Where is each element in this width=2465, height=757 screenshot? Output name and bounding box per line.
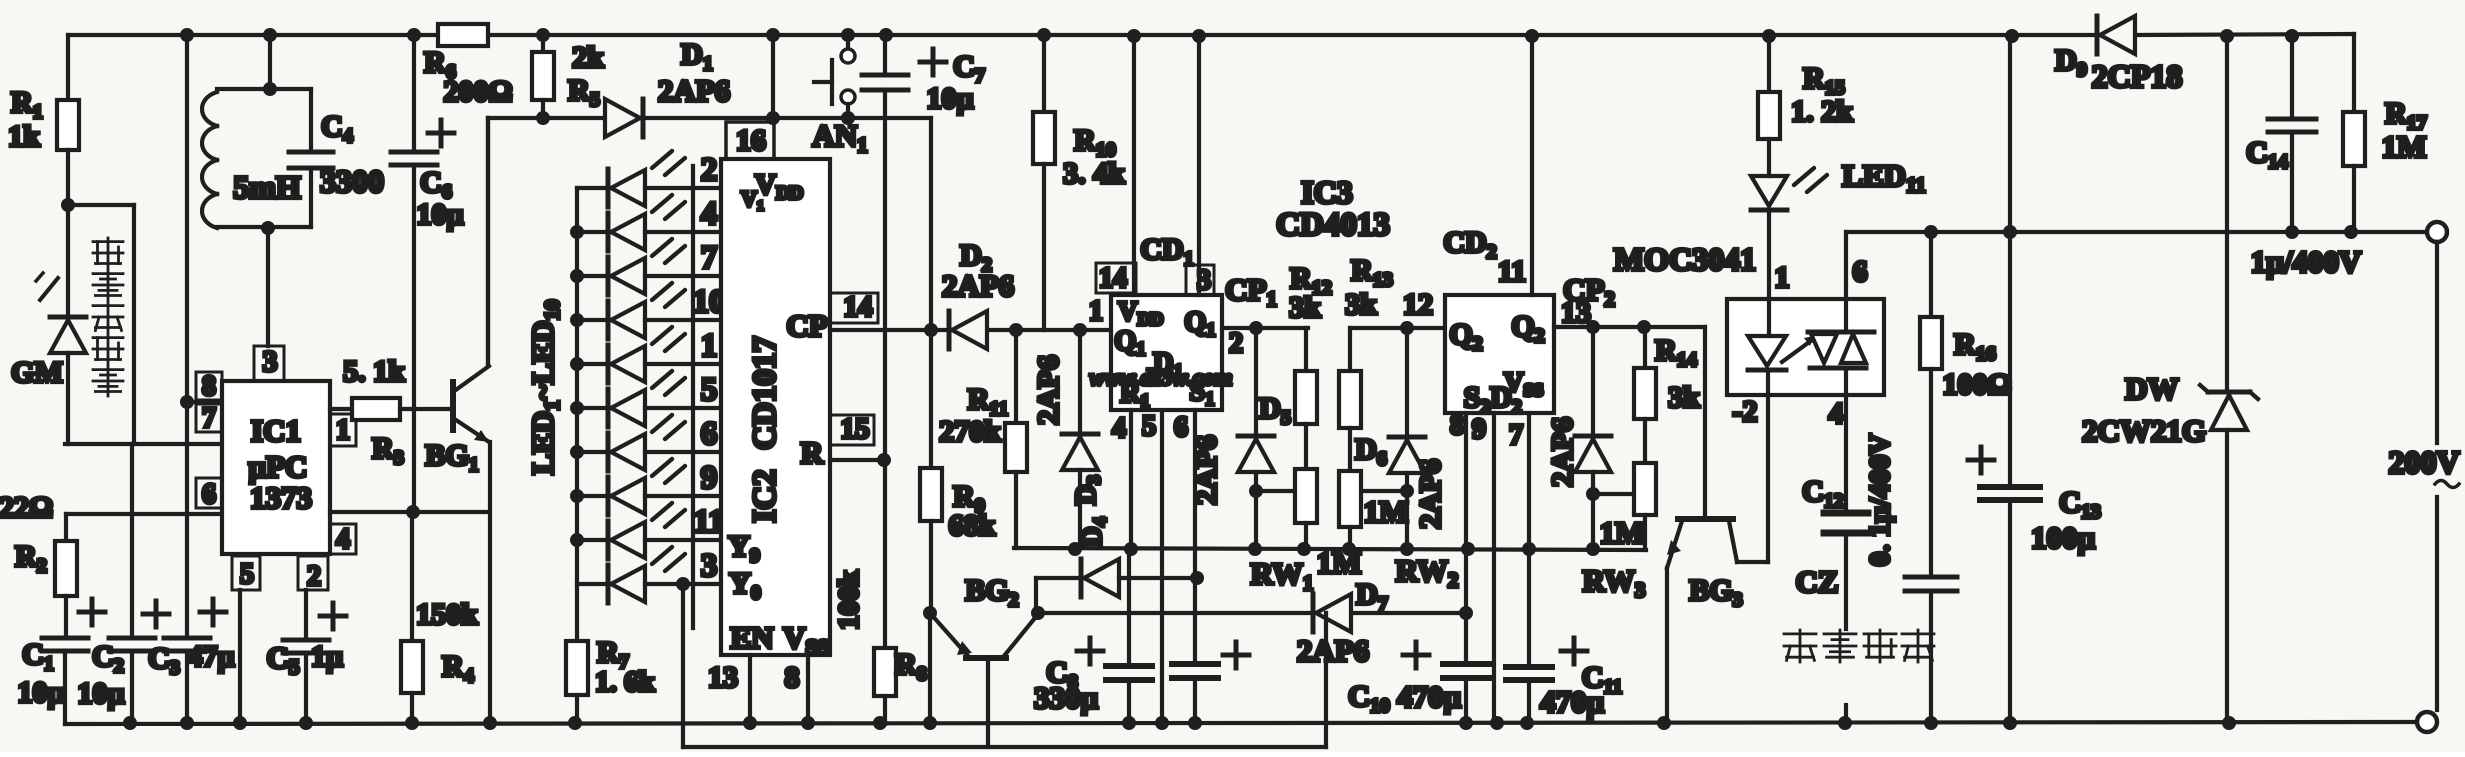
node top bus junction x1134 xyxy=(1127,29,1141,43)
svg-text:1: 1 xyxy=(1089,296,1103,327)
wire LED cathode rail xyxy=(575,188,579,641)
svg-text:2AP6: 2AP6 xyxy=(1546,417,1579,487)
LED D LED8 xyxy=(577,494,608,498)
wire CD2 pin7 down xyxy=(1527,413,1531,549)
node AC row x2351 xyxy=(2344,225,2358,239)
wire C13 to ground xyxy=(2008,500,2012,724)
wire C2 to ground xyxy=(130,651,134,724)
pin tab IC1-6 xyxy=(196,478,222,508)
svg-text:5: 5 xyxy=(1142,411,1156,442)
svg-text:1M: 1M xyxy=(2382,129,2427,164)
wire tank top xyxy=(217,87,311,91)
svg-text:1M: 1M xyxy=(1317,545,1362,580)
svg-text:2AP6: 2AP6 xyxy=(1190,435,1223,505)
svg-text:470μ: 470μ xyxy=(1540,684,1605,719)
node R14 top xyxy=(1637,320,1651,334)
node R11 top xyxy=(1009,323,1023,337)
plus C13 xyxy=(1968,458,1994,463)
wire D6 top lead xyxy=(1405,328,1409,437)
svg-text:2: 2 xyxy=(701,152,718,188)
wire R1 to GM node xyxy=(66,150,70,205)
diode D3 xyxy=(1062,432,1098,437)
svg-text:2AP6: 2AP6 xyxy=(1032,355,1065,425)
LED4 slashes xyxy=(652,283,672,300)
svg-text:14: 14 xyxy=(844,291,873,323)
svg-text:1: 1 xyxy=(1775,261,1790,294)
node LED rail row 8 xyxy=(570,489,584,503)
svg-text:CP: CP xyxy=(786,308,827,343)
capacitor C1 xyxy=(42,636,88,641)
wire RW1 bottom lead xyxy=(1304,523,1308,549)
node ground bus junction x575 xyxy=(568,716,582,730)
node BG2 emitter xyxy=(1031,606,1045,620)
node ground bus junction x930 xyxy=(923,716,937,730)
capacitor C5 xyxy=(283,638,329,643)
node ground bus junction x1931 xyxy=(1924,716,1938,730)
LED1 slashes xyxy=(652,151,672,168)
MOC internal LED xyxy=(1748,336,1786,366)
wire CD1 pin4 down xyxy=(1129,410,1133,549)
LED6 slashes xyxy=(652,371,672,388)
wire D8 bottom lead xyxy=(1591,472,1595,551)
wire R9 bottom lead xyxy=(929,521,933,613)
wire R8 to ground xyxy=(883,696,887,724)
capacitor C3 xyxy=(164,636,210,641)
wire bottom ground bus xyxy=(65,722,2417,724)
diode D6 xyxy=(1389,435,1425,440)
flip-flop U CD2 box xyxy=(1445,295,1554,413)
svg-text:200Ω: 200Ω xyxy=(443,75,512,108)
svg-text:10μ: 10μ xyxy=(77,677,124,710)
svg-text:R: R xyxy=(801,435,824,470)
svg-text:6: 6 xyxy=(1853,255,1868,288)
text hongwai char 4 xyxy=(93,334,123,364)
wire tank to IC1 pin3 xyxy=(266,228,270,346)
LED D LED3 xyxy=(577,274,608,278)
node top bus junction x1769 xyxy=(1762,29,1776,43)
resistor R3 xyxy=(352,398,400,420)
wire DW top lead xyxy=(2225,38,2229,392)
wire BG1 collector up xyxy=(486,118,490,365)
node top bus junction x2227 xyxy=(2220,29,2234,43)
transistor Q BG3 xyxy=(1678,516,1733,522)
resistor R16 xyxy=(1920,317,1942,369)
svg-text:100Ω: 100Ω xyxy=(1942,368,2011,401)
resistor R15 xyxy=(1758,92,1780,139)
text hongwai char 3 xyxy=(93,302,123,332)
svg-text:100μ: 100μ xyxy=(2031,520,2096,555)
pin tab IC1-1 xyxy=(330,414,356,446)
wire R10 top lead xyxy=(1042,35,1046,112)
wire R12 top lead xyxy=(1304,328,1308,371)
diode D9 xyxy=(2095,16,2100,54)
svg-text:-2: -2 xyxy=(1733,395,1758,428)
svg-text:7: 7 xyxy=(701,240,718,276)
resistor R9 xyxy=(920,468,942,521)
wire CD2 pin9 to ground xyxy=(1492,413,1496,724)
svg-text:8: 8 xyxy=(202,371,216,402)
svg-text:1: 1 xyxy=(336,415,350,446)
resistor R12 xyxy=(1295,371,1317,424)
LED2 slashes xyxy=(652,195,672,212)
diode D1 xyxy=(605,99,640,137)
pin tab IC2-16 xyxy=(726,122,774,159)
text feng xyxy=(1864,630,1896,662)
node ground bus junction x240 xyxy=(233,716,247,730)
text hongwai char 2 xyxy=(93,270,123,300)
node ground bus junction x130 xyxy=(123,716,137,730)
capacitor C8 xyxy=(1106,663,1152,669)
capacitor C12 xyxy=(1824,510,1868,517)
svg-text:LED1~LED10: LED1~LED10 xyxy=(525,299,564,474)
wire D6 bottom lead xyxy=(1405,473,1409,549)
svg-text:68k: 68k xyxy=(949,509,996,542)
wire R11 top lead xyxy=(1014,330,1018,423)
svg-text:2AP6: 2AP6 xyxy=(1414,459,1447,529)
svg-text:2AP6: 2AP6 xyxy=(1297,633,1369,668)
node LED rail row 6 xyxy=(570,401,584,415)
svg-text:3: 3 xyxy=(1197,265,1211,296)
node D6 top xyxy=(1400,321,1414,335)
wire R15 to LED11 xyxy=(1767,139,1771,176)
terminal AC bottom circle xyxy=(2417,712,2437,732)
optocoupler U MOC3041 box xyxy=(1727,299,1884,395)
wire RW2 bottom lead xyxy=(1348,527,1352,549)
wire top supply bus left segment xyxy=(68,33,438,37)
wire C3 to ground xyxy=(185,651,189,724)
resistor R10 xyxy=(1033,112,1055,164)
node ground bus junction x1162 xyxy=(1155,716,1169,730)
potentiometer RW1 xyxy=(1295,469,1317,523)
wire GM node to IC1 pin7 row xyxy=(65,442,222,446)
node D5 bottom xyxy=(1248,542,1262,556)
wire R4 top lead xyxy=(410,512,414,641)
LED D LED9 xyxy=(577,538,608,542)
wire R9 top lead xyxy=(929,330,933,468)
diode D5 xyxy=(1238,434,1274,439)
svg-text:1. 6k: 1. 6k xyxy=(595,666,656,698)
wire C4 bottom lead xyxy=(309,168,313,227)
svg-text:9: 9 xyxy=(701,460,718,496)
wire IR receiver right lead xyxy=(132,205,136,444)
node AC row x2292 xyxy=(2285,225,2299,239)
diode D8 xyxy=(1575,434,1611,439)
node pin16/D1 row xyxy=(766,111,780,125)
pin tab IC2-15 xyxy=(830,415,874,445)
svg-text:8: 8 xyxy=(785,661,800,694)
node top bus junction x414 xyxy=(407,28,421,42)
node D8 top xyxy=(1586,320,1600,334)
svg-text:www.dz3w.com: www.dz3w.com xyxy=(1090,365,1233,390)
wire C12 to CZ xyxy=(1844,533,1848,629)
LED D LED1 xyxy=(577,186,608,190)
wire Vdd to CD2 pin11 xyxy=(1530,36,1534,295)
diode D4 xyxy=(1079,559,1084,597)
pin tab IC1-8 xyxy=(196,372,222,400)
wire EN/BG2 base row xyxy=(683,745,1326,749)
svg-text:GM: GM xyxy=(11,356,63,389)
wire R13 to RW2 xyxy=(1348,428,1352,471)
node LED rail row 2 xyxy=(570,225,584,239)
node top bus junction x1044 xyxy=(1037,28,1051,42)
wire AN1 bottom lead xyxy=(846,104,850,118)
wire C8 top lead xyxy=(1127,549,1131,666)
wire D3 top lead xyxy=(1078,330,1082,434)
node D5 top xyxy=(1249,321,1263,335)
plus C3 xyxy=(200,610,226,615)
LED10 slashes xyxy=(652,547,672,564)
node ground bus junction x1845 xyxy=(1838,716,1852,730)
wire R16 top lead xyxy=(1929,232,1933,317)
wire LED11 to MOC pin1 xyxy=(1767,212,1771,334)
wire C13 top lead xyxy=(2008,232,2012,487)
svg-text:4: 4 xyxy=(1829,397,1844,430)
svg-text:4: 4 xyxy=(336,524,350,555)
capacitor C14 xyxy=(2268,117,2316,122)
svg-text:3k: 3k xyxy=(1668,381,1700,414)
svg-text:MOC3041: MOC3041 xyxy=(1614,241,1756,277)
node ground bus junction x1466 xyxy=(1459,716,1473,730)
svg-text:3k: 3k xyxy=(1289,291,1321,324)
resistor R1 xyxy=(57,100,79,150)
plus C1 xyxy=(79,610,105,615)
node R1/GM junction xyxy=(61,198,75,212)
wire R2 top lead xyxy=(64,514,68,541)
wire R13 top lead xyxy=(1348,328,1352,371)
LED3 slashes xyxy=(652,239,672,256)
LED D LED2 xyxy=(577,230,608,234)
node D8 wiper tap xyxy=(1586,487,1600,501)
node top bus junction x270 xyxy=(263,28,277,42)
node ground bus junction x1129 xyxy=(1122,716,1136,730)
wire R14 to RW3 xyxy=(1643,419,1647,463)
pin tab IC1-7 xyxy=(196,404,222,432)
capacitor C11 xyxy=(1506,664,1552,670)
GM incident light slashes xyxy=(40,278,58,300)
wire R1 top lead xyxy=(66,35,70,100)
wire CD1 pin6 down xyxy=(1193,410,1197,578)
plus C11 xyxy=(1561,649,1587,654)
wire R7 to ground xyxy=(575,695,579,724)
node top bus junction x2292 xyxy=(2285,29,2299,43)
potentiometer RW2 xyxy=(1339,471,1361,527)
resistor R11 xyxy=(1005,423,1027,472)
wire CD2 pin13 out xyxy=(1554,325,1705,329)
svg-text:3: 3 xyxy=(263,345,278,378)
svg-text:13: 13 xyxy=(1561,296,1591,329)
node D6 wiper tap xyxy=(1400,484,1414,498)
node R pin junction xyxy=(877,453,891,467)
svg-text:DW: DW xyxy=(2125,371,2178,406)
node D6 bottom xyxy=(1400,542,1414,556)
svg-text:IC2: IC2 xyxy=(747,469,783,522)
flip-flop U CD1 box xyxy=(1111,295,1222,410)
svg-text:470μ: 470μ xyxy=(1397,679,1462,714)
wire IC2 R pin to rail xyxy=(830,458,885,462)
node R5 bottom xyxy=(536,111,550,125)
resistor R5 xyxy=(532,52,554,100)
wire MOC pin6 inside xyxy=(1844,299,1848,332)
svg-text:1. 2k: 1. 2k xyxy=(1791,95,1853,128)
svg-text:1M: 1M xyxy=(1364,494,1409,529)
wire to CD1 pin3 xyxy=(1197,36,1201,295)
LED D LED4 xyxy=(577,318,608,322)
svg-text:5. 1k: 5. 1k xyxy=(343,355,405,388)
wire IC1 pin1 to R3 xyxy=(330,407,352,411)
node LED rail row 7 xyxy=(570,445,584,459)
node top bus junction x1199 xyxy=(1192,29,1206,43)
svg-text:CD4013: CD4013 xyxy=(1276,207,1390,243)
wire C4 top lead xyxy=(309,89,313,152)
node D8 bottom xyxy=(1586,542,1600,556)
text dian xyxy=(1824,630,1856,662)
wire R10 bottom lead xyxy=(1042,164,1046,330)
node pin7 node xyxy=(1522,542,1536,556)
node top bus junction x886 xyxy=(879,28,893,42)
wire IC1 pin5 to ground xyxy=(238,590,242,724)
svg-text:330μ: 330μ xyxy=(1034,680,1099,715)
svg-text:270k: 270k xyxy=(939,415,1001,448)
wire top supply bus middle segment xyxy=(488,33,2095,37)
svg-text:12: 12 xyxy=(1403,288,1433,321)
wire R5 bottom lead xyxy=(541,100,545,118)
svg-text:5mH: 5mH xyxy=(233,169,301,205)
wire DW to ground xyxy=(2225,430,2229,724)
node ground bus junction x2229 xyxy=(2222,716,2236,730)
svg-text:14: 14 xyxy=(1099,263,1127,294)
wire MOC pin6 up xyxy=(1844,232,1848,299)
wire BG2 emitter row right xyxy=(1352,611,1466,615)
wire CP row xyxy=(830,328,1111,332)
node D4/pin6 xyxy=(1190,571,1204,585)
node D3 top xyxy=(1073,323,1087,337)
LED9 slashes xyxy=(652,503,672,520)
node top bus junction x2012 xyxy=(2005,29,2019,43)
node ground bus junction x1664 xyxy=(1657,716,1671,730)
svg-text:13: 13 xyxy=(708,661,738,694)
capacitor C6 xyxy=(391,150,437,155)
wire R7 top xyxy=(575,639,579,643)
capacitor C4 xyxy=(289,150,333,155)
svg-text:2CP18: 2CP18 xyxy=(2092,58,2183,94)
node RW2 bottom xyxy=(1342,542,1356,556)
svg-text:2AP6: 2AP6 xyxy=(942,268,1014,303)
LED D LED6 xyxy=(577,406,608,410)
text jie xyxy=(1784,630,1816,662)
capacitor C9 xyxy=(1172,661,1218,667)
wire C14 top lead xyxy=(2290,36,2294,119)
plus C8 xyxy=(1077,649,1103,654)
pin tab IC1-4 xyxy=(330,524,356,554)
svg-text:3300: 3300 xyxy=(320,163,384,199)
node LED rail row 4 xyxy=(570,313,584,327)
wire R17 top lead xyxy=(2352,34,2356,112)
svg-text:6: 6 xyxy=(701,416,718,452)
plus C7 xyxy=(920,60,946,65)
wire R16 to snubber cap xyxy=(1929,369,1933,577)
svg-text:15: 15 xyxy=(841,413,870,445)
node pin8 rail junction xyxy=(180,395,194,409)
wire snubber cap to ground xyxy=(1929,591,1933,724)
wire C8 to ground xyxy=(1127,680,1131,724)
wire AC right lower xyxy=(2435,497,2439,710)
LED11 slashes xyxy=(1794,168,1814,185)
LED D LED5 xyxy=(577,362,608,366)
node ground bus junction x808 xyxy=(801,716,815,730)
MOC internal triac xyxy=(1808,330,1874,335)
node Y0 output junction xyxy=(676,577,690,591)
svg-text:5: 5 xyxy=(701,372,718,408)
wire C1 to ground xyxy=(63,651,67,724)
wire R3 to BG1 base xyxy=(400,407,452,411)
svg-text:μPC: μPC xyxy=(249,449,308,484)
wire D4 right lead xyxy=(1119,576,1197,580)
node top bus junction x848 xyxy=(841,28,855,42)
LED5 slashes xyxy=(652,327,672,344)
svg-text:1M: 1M xyxy=(1600,515,1645,550)
wire CD2 pin12 xyxy=(1350,326,1445,330)
wire C6 bottom lead xyxy=(412,168,416,512)
svg-text:150k: 150k xyxy=(416,598,478,631)
inductor L 5mH coil xyxy=(202,92,217,126)
svg-text:0. 1μ/400V: 0. 1μ/400V xyxy=(1864,434,1896,566)
wire C6 top lead xyxy=(412,35,416,152)
svg-text:CD1017: CD1017 xyxy=(747,336,783,450)
svg-text:1373: 1373 xyxy=(250,480,312,515)
wire CD1 pin5 to ground xyxy=(1160,410,1164,724)
node AC row x2010 xyxy=(2003,225,2017,239)
wire Y0 to BG2 base row xyxy=(681,584,685,747)
wire IC1 pin4 row xyxy=(330,510,489,514)
capacitor C10 xyxy=(1443,661,1489,667)
svg-text:10μ: 10μ xyxy=(416,198,463,231)
wire pin8 to D7 node xyxy=(1464,549,1468,613)
wire C14 bottom lead xyxy=(2290,132,2294,232)
svg-text:100k: 100k xyxy=(833,569,865,630)
node C8 top xyxy=(1124,542,1138,556)
node ground bus junction x412 xyxy=(405,716,419,730)
wire D4 branch down xyxy=(1034,578,1038,613)
resistor R2 xyxy=(55,541,77,596)
wire tank top lead xyxy=(268,35,272,89)
diode GM infrared receiver xyxy=(50,315,86,320)
node tank top xyxy=(263,82,277,96)
wire D4 left lead xyxy=(1036,576,1081,580)
svg-text:11: 11 xyxy=(1498,255,1526,288)
wire GM diode top lead xyxy=(66,205,70,317)
node ground bus junction x1195 xyxy=(1188,716,1202,730)
LED LED11 xyxy=(1751,176,1787,206)
wire RW3 bottom lead xyxy=(1643,515,1647,550)
wire BG3 collector xyxy=(1737,560,1768,564)
wire BG2 emitter row left xyxy=(1038,611,1313,615)
wire AN1 rail down to CP xyxy=(929,118,933,330)
svg-text:IC1: IC1 xyxy=(251,413,301,448)
resistor R4 xyxy=(401,641,423,693)
svg-text:9: 9 xyxy=(1472,414,1486,445)
node tank bottom xyxy=(261,221,275,235)
wire to IC1 pin8 xyxy=(187,400,222,404)
wire C7/R8 rail xyxy=(883,90,887,648)
wire C9 to ground xyxy=(1193,678,1197,724)
svg-text:2: 2 xyxy=(1229,328,1243,359)
resistor R7 xyxy=(566,641,588,695)
wire D7 node to EN row xyxy=(1324,613,1328,747)
wire C10 to ground xyxy=(1464,678,1468,724)
wire D5 top lead xyxy=(1254,328,1258,436)
node LED rail row 9 xyxy=(570,533,584,547)
node top bus junction x773 xyxy=(766,28,780,42)
